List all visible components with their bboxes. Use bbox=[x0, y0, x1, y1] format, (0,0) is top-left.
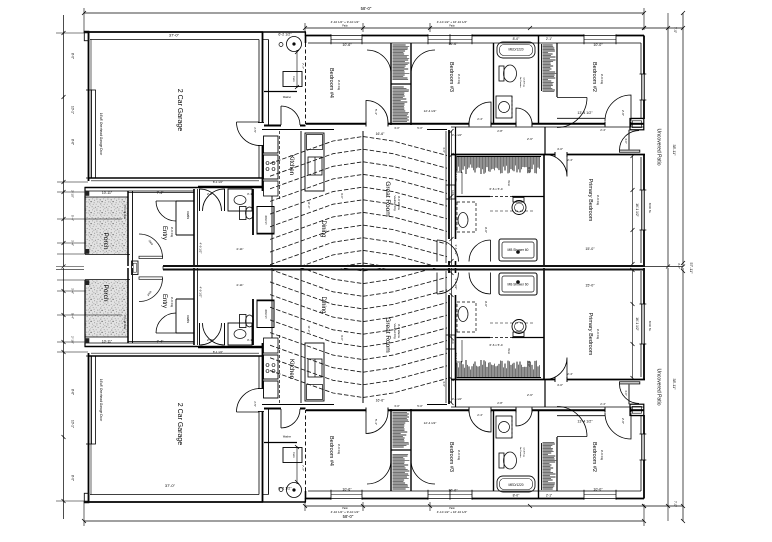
svg-text:8'-1 1/2": 8'-1 1/2" bbox=[213, 180, 223, 184]
svg-text:Furn: Furn bbox=[292, 76, 296, 82]
svg-text:9'-0 Clg: 9'-0 Clg bbox=[600, 450, 604, 461]
svg-text:2'-10": 2'-10" bbox=[71, 336, 75, 344]
svg-text:10'-11": 10'-11" bbox=[102, 191, 113, 195]
svg-text:3'-1": 3'-1" bbox=[247, 338, 253, 342]
svg-text:10'-6": 10'-6" bbox=[342, 43, 352, 47]
svg-text:58'-0": 58'-0" bbox=[361, 6, 372, 11]
svg-text:9'-0 Clg: 9'-0 Clg bbox=[337, 444, 341, 455]
svg-text:2 Car Garage: 2 Car Garage bbox=[176, 403, 183, 446]
svg-text:9'-0": 9'-0" bbox=[484, 301, 488, 307]
svg-text:10'-1": 10'-1" bbox=[71, 420, 75, 428]
svg-text:2'-5": 2'-5" bbox=[253, 127, 257, 133]
svg-text:Vaulted Clg: Vaulted Clg bbox=[393, 195, 397, 211]
svg-text:16'x8' Overhead Garage Door: 16'x8' Overhead Garage Door bbox=[99, 379, 103, 422]
svg-text:10'-11": 10'-11" bbox=[102, 339, 113, 343]
svg-text:1in Curtain: 1in Curtain bbox=[519, 77, 522, 88]
svg-text:3'-7": 3'-7" bbox=[677, 263, 681, 269]
svg-text:13'-4 1/2": 13'-4 1/2" bbox=[577, 420, 593, 424]
svg-text:2'-8": 2'-8" bbox=[497, 129, 503, 133]
svg-text:2'-8": 2'-8" bbox=[207, 192, 213, 196]
svg-text:W/H: W/H bbox=[507, 180, 511, 185]
svg-text:Primary Bedroom: Primary Bedroom bbox=[587, 179, 593, 222]
svg-text:Great Room: Great Room bbox=[384, 317, 391, 352]
svg-text:7'-0": 7'-0" bbox=[673, 501, 677, 507]
svg-text:2'-8": 2'-8" bbox=[497, 401, 503, 405]
svg-text:8'-6": 8'-6" bbox=[71, 139, 75, 145]
svg-text:Washer: Washer bbox=[283, 436, 291, 439]
svg-text:37'-0": 37'-0" bbox=[169, 33, 180, 38]
svg-text:2'-4": 2'-4" bbox=[477, 117, 483, 121]
svg-text:21'-6 1/2": 21'-6 1/2" bbox=[454, 169, 458, 182]
svg-text:Dining: Dining bbox=[320, 220, 326, 237]
svg-text:Uncovered Patio: Uncovered Patio bbox=[656, 129, 662, 166]
svg-text:2'-6": 2'-6" bbox=[527, 137, 533, 141]
svg-text:3'-6 1/2": 3'-6 1/2" bbox=[452, 133, 462, 137]
svg-text:21'-6 1/2": 21'-6 1/2" bbox=[454, 353, 458, 366]
svg-text:4'-0": 4'-0" bbox=[557, 147, 563, 151]
svg-text:5'-0": 5'-0" bbox=[417, 126, 423, 130]
svg-text:Lin: Lin bbox=[451, 190, 455, 194]
svg-text:2'-4": 2'-4" bbox=[567, 372, 573, 376]
svg-text:15'-0": 15'-0" bbox=[585, 247, 595, 251]
svg-text:7'-4": 7'-4" bbox=[157, 339, 165, 343]
svg-text:Lin: Lin bbox=[451, 340, 455, 344]
svg-text:1in Curtain: 1in Curtain bbox=[519, 447, 522, 458]
svg-text:3'-6 1/2": 3'-6 1/2" bbox=[454, 245, 458, 256]
svg-text:MED/1220: MED/1220 bbox=[508, 483, 523, 487]
svg-text:coats: coats bbox=[186, 315, 190, 323]
svg-text:MB Shower 60: MB Shower 60 bbox=[508, 248, 529, 252]
svg-text:16'x8' Overhead Garage Door: 16'x8' Overhead Garage Door bbox=[99, 113, 103, 156]
svg-text:6'-6 x 5'-0: 6'-6 x 5'-0 bbox=[490, 187, 503, 191]
svg-text:15'-0": 15'-0" bbox=[585, 284, 595, 288]
svg-text:9'-0 Wains: 9'-0 Wains bbox=[397, 324, 401, 338]
svg-text:8'-0": 8'-0" bbox=[513, 37, 521, 41]
svg-text:Patio: Patio bbox=[449, 507, 455, 510]
svg-text:5'-4": 5'-4" bbox=[71, 313, 75, 319]
svg-text:3'-6 1/2": 3'-6 1/2" bbox=[454, 279, 458, 290]
svg-text:3'-0": 3'-0" bbox=[624, 390, 628, 396]
svg-text:3030 SH: 3030 SH bbox=[264, 215, 267, 225]
svg-text:9'-0": 9'-0" bbox=[340, 193, 344, 199]
svg-text:4'-10 1/2" + 16'-10 1/2": 4'-10 1/2" + 16'-10 1/2" bbox=[437, 510, 467, 514]
svg-text:9'-0 Clg: 9'-0 Clg bbox=[337, 80, 341, 91]
svg-text:2'-1": 2'-1" bbox=[546, 493, 552, 497]
svg-text:Patio: Patio bbox=[449, 25, 455, 28]
svg-text:13'-4 1/2": 13'-4 1/2" bbox=[577, 111, 593, 115]
svg-text:Bedroom #2: Bedroom #2 bbox=[591, 62, 597, 92]
svg-text:Bedroom #4: Bedroom #4 bbox=[328, 68, 334, 98]
svg-text:3'-6": 3'-6" bbox=[442, 147, 446, 153]
svg-text:3'-0": 3'-0" bbox=[394, 126, 400, 130]
svg-text:12x9 Rug: 12x9 Rug bbox=[523, 447, 525, 457]
svg-text:10'-6": 10'-6" bbox=[342, 488, 352, 492]
svg-text:9'-0": 9'-0" bbox=[340, 335, 344, 341]
svg-text:9'-0": 9'-0" bbox=[484, 227, 488, 233]
svg-text:6'-2 1/2": 6'-2 1/2" bbox=[278, 487, 292, 491]
svg-text:Furn: Furn bbox=[292, 452, 296, 458]
svg-text:5'-4": 5'-4" bbox=[374, 419, 378, 425]
svg-text:7'-4": 7'-4" bbox=[157, 191, 165, 195]
svg-text:6'-2 1/2": 6'-2 1/2" bbox=[278, 33, 292, 37]
svg-text:10'-0": 10'-0" bbox=[593, 43, 603, 47]
svg-text:4'-0 +16 Riser: 4'-0 +16 Riser bbox=[123, 205, 126, 220]
svg-text:16'-6": 16'-6" bbox=[448, 42, 458, 46]
svg-text:3'-6": 3'-6" bbox=[442, 381, 446, 387]
svg-text:3030 SH: 3030 SH bbox=[264, 309, 267, 319]
svg-text:3'-4": 3'-4" bbox=[71, 240, 75, 246]
svg-text:3'-0": 3'-0" bbox=[394, 404, 400, 408]
svg-text:Uncovered Patio: Uncovered Patio bbox=[656, 369, 662, 406]
svg-text:3'-0": 3'-0" bbox=[624, 138, 628, 144]
svg-text:3'-6 1/2": 3'-6 1/2" bbox=[452, 397, 462, 401]
svg-text:Kitchen: Kitchen bbox=[288, 155, 294, 175]
svg-text:9'-0 Clg: 9'-0 Clg bbox=[170, 227, 174, 238]
svg-text:4'-9 1/2": 4'-9 1/2" bbox=[199, 287, 203, 298]
svg-text:Dining: Dining bbox=[320, 296, 326, 313]
svg-text:Bedroom #2: Bedroom #2 bbox=[591, 442, 597, 472]
svg-text:5'-4": 5'-4" bbox=[71, 215, 75, 221]
svg-text:4'-10 1/2" + 16'-10 1/2": 4'-10 1/2" + 16'-10 1/2" bbox=[437, 20, 467, 24]
svg-text:2'-1": 2'-1" bbox=[546, 37, 552, 41]
svg-text:16'-6": 16'-6" bbox=[376, 398, 385, 402]
svg-text:2'-10": 2'-10" bbox=[71, 190, 75, 198]
svg-text:10'-0": 10'-0" bbox=[593, 488, 603, 492]
svg-text:MB Shower 60: MB Shower 60 bbox=[508, 282, 529, 286]
svg-text:2'-6": 2'-6" bbox=[527, 393, 533, 397]
svg-text:12'-4 1/2": 12'-4 1/2" bbox=[424, 421, 437, 425]
svg-text:Entry: Entry bbox=[161, 294, 167, 308]
svg-text:2'-4": 2'-4" bbox=[567, 158, 573, 162]
svg-text:9'-0 Clg: 9'-0 Clg bbox=[600, 74, 604, 85]
svg-text:6040 SL: 6040 SL bbox=[648, 203, 652, 214]
svg-text:2'-8": 2'-8" bbox=[621, 418, 625, 424]
svg-text:38'-11": 38'-11" bbox=[672, 145, 676, 157]
svg-text:58'-0": 58'-0" bbox=[343, 514, 354, 519]
svg-text:12x9 Rug: 12x9 Rug bbox=[523, 77, 525, 87]
svg-text:7'-0": 7'-0" bbox=[673, 27, 677, 33]
svg-text:Kitchen: Kitchen bbox=[288, 359, 294, 379]
svg-text:6'-6 x 5'-0: 6'-6 x 5'-0 bbox=[490, 343, 503, 347]
svg-text:2'-4": 2'-4" bbox=[600, 402, 606, 406]
svg-text:11'-4": 11'-4" bbox=[307, 326, 311, 333]
svg-text:Porch: Porch bbox=[102, 233, 109, 250]
svg-text:3'-4": 3'-4" bbox=[71, 288, 75, 294]
svg-text:8'-0": 8'-0" bbox=[513, 493, 521, 497]
svg-text:8'-1 1/2": 8'-1 1/2" bbox=[213, 350, 223, 354]
svg-text:57'-11": 57'-11" bbox=[689, 263, 693, 275]
svg-text:coats: coats bbox=[186, 211, 190, 219]
svg-text:Bedroom #3: Bedroom #3 bbox=[448, 442, 454, 472]
svg-text:9'-0 Wains: 9'-0 Wains bbox=[397, 196, 401, 210]
svg-text:16'-6": 16'-6" bbox=[376, 132, 385, 136]
svg-text:Patio: Patio bbox=[342, 25, 348, 28]
svg-text:7'-7": 7'-7" bbox=[301, 63, 305, 69]
svg-text:W/H: W/H bbox=[507, 348, 511, 353]
svg-text:4'-11": 4'-11" bbox=[236, 283, 243, 287]
svg-text:2'-4": 2'-4" bbox=[600, 128, 606, 132]
svg-text:5'-4": 5'-4" bbox=[374, 109, 378, 115]
svg-text:Entry: Entry bbox=[161, 226, 167, 240]
svg-text:Great Room: Great Room bbox=[384, 181, 391, 216]
svg-text:4'-10 1/2" + 9'-10 1/2": 4'-10 1/2" + 9'-10 1/2" bbox=[331, 20, 360, 24]
svg-text:Vaulted Clg: Vaulted Clg bbox=[393, 323, 397, 339]
svg-text:Bedroom #3: Bedroom #3 bbox=[448, 62, 454, 92]
svg-text:6040 SL: 6040 SL bbox=[648, 321, 652, 332]
svg-text:9'-0 Clg: 9'-0 Clg bbox=[596, 195, 600, 206]
svg-text:2'-8": 2'-8" bbox=[207, 338, 213, 342]
svg-text:5'-0": 5'-0" bbox=[527, 361, 531, 367]
svg-text:2 Car Garage: 2 Car Garage bbox=[176, 89, 183, 132]
svg-text:9'-0 Clg: 9'-0 Clg bbox=[596, 329, 600, 340]
svg-text:16'-6": 16'-6" bbox=[448, 489, 458, 493]
svg-text:4'-11": 4'-11" bbox=[236, 247, 243, 251]
svg-text:2'-8": 2'-8" bbox=[621, 110, 625, 116]
svg-text:3'-1": 3'-1" bbox=[247, 192, 253, 196]
svg-text:8'-0": 8'-0" bbox=[71, 53, 75, 59]
svg-text:11'-4": 11'-4" bbox=[307, 202, 311, 209]
svg-text:Primary Bedroom: Primary Bedroom bbox=[587, 313, 593, 356]
svg-text:9'-0 Clg: 9'-0 Clg bbox=[457, 74, 461, 85]
svg-text:4'-0 +16 Riser: 4'-0 +16 Riser bbox=[123, 315, 126, 330]
svg-text:Porch: Porch bbox=[102, 285, 109, 302]
svg-text:9'-0 Clg: 9'-0 Clg bbox=[170, 297, 174, 308]
svg-text:Patio: Patio bbox=[342, 507, 348, 510]
svg-text:4'-0": 4'-0" bbox=[557, 383, 563, 387]
svg-text:2'-5": 2'-5" bbox=[253, 401, 257, 407]
svg-text:12'-4 1/2": 12'-4 1/2" bbox=[424, 109, 437, 113]
svg-text:MED/1220: MED/1220 bbox=[508, 48, 523, 52]
svg-text:16'-1 1/2": 16'-1 1/2" bbox=[635, 317, 639, 330]
svg-text:8'-0": 8'-0" bbox=[71, 475, 75, 481]
svg-text:Bedroom #4: Bedroom #4 bbox=[328, 436, 334, 466]
svg-text:8'-6": 8'-6" bbox=[71, 389, 75, 395]
svg-text:37'-0": 37'-0" bbox=[165, 483, 176, 488]
svg-text:Washer: Washer bbox=[283, 96, 291, 99]
svg-text:7'-7": 7'-7" bbox=[301, 465, 305, 471]
svg-text:2'-4": 2'-4" bbox=[477, 413, 483, 417]
svg-text:4'-9 1/2": 4'-9 1/2" bbox=[199, 243, 203, 254]
svg-text:5'-0": 5'-0" bbox=[527, 167, 531, 173]
svg-text:10'-1": 10'-1" bbox=[71, 106, 75, 114]
svg-text:5'-0": 5'-0" bbox=[417, 404, 423, 408]
svg-text:16'-1 1/2": 16'-1 1/2" bbox=[635, 203, 639, 216]
svg-text:9'-0 Clg: 9'-0 Clg bbox=[457, 450, 461, 461]
svg-text:38'-11": 38'-11" bbox=[672, 379, 676, 391]
